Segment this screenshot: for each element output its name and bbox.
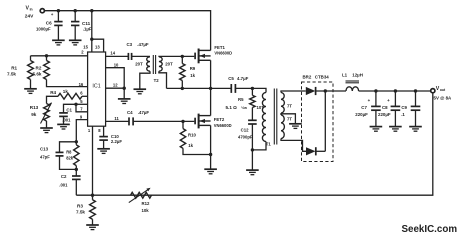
svg-text:1k: 1k [188,143,193,148]
wire [75,169,77,176]
svg-text:in: in [30,8,33,12]
svg-text:5V @ 8A: 5V @ 8A [434,96,453,101]
resistor R4 body [58,93,82,99]
svg-text:.47µF: .47µF [137,42,149,47]
resistor R1 body [28,61,34,80]
svg-text:½w: ½w [241,106,247,110]
ground C11 [69,40,82,45]
svg-text:VN6600D: VN6600D [214,123,232,128]
node switch node [209,87,212,90]
capacitor C12 4700pF [248,120,257,124]
svg-text:47pF: 47pF [40,154,50,159]
diode BR2 top [306,87,316,95]
wire [92,195,94,200]
wire T2 primary to ground [140,71,150,89]
wire [75,166,77,170]
wire pin 10 jog [106,68,125,89]
wire [251,108,253,121]
svg-text:T2: T2 [154,78,160,83]
svg-text:14: 14 [110,51,115,56]
wire T2 sec bottom to node [159,71,167,88]
svg-text:R10: R10 [188,132,196,137]
svg-text:+: + [368,98,371,103]
wire [210,155,212,170]
wire [251,124,253,150]
svg-text:T1: T1 [266,142,272,147]
T2 secondary winding [159,57,162,71]
node rail-C7 [374,89,377,92]
ground C10 [97,149,110,154]
wire pin 8 [103,126,105,136]
ground C1 [57,124,70,129]
node pin5/7-C1 [74,103,77,106]
wire pin 7 jumper [76,104,88,112]
node rail-C9 [414,89,417,92]
ground C8 [389,127,402,132]
svg-text:.1: .1 [401,112,405,117]
node R8-C13 top [75,140,78,143]
wire C1 top [64,104,77,113]
T1 sec lower [281,115,284,139]
svg-text:82k: 82k [66,156,74,161]
wire [181,56,183,63]
node C12-T1 bottom [251,148,254,151]
wire FET2 source [210,125,212,154]
wire feedback bottom rail [76,93,433,195]
svg-text:13: 13 [95,45,100,50]
wire BR2 link [324,91,326,151]
svg-text:R9: R9 [190,66,196,71]
wire R4 to R13 [47,96,59,103]
wire C13 bottom [60,156,77,170]
diode BR2 bottom [306,147,316,155]
capacitor C11 [71,11,79,41]
wire T1 primary bottom [252,142,266,150]
svg-text:R12: R12 [142,201,150,206]
svg-text:FET1: FET1 [214,45,225,50]
wire [46,121,48,128]
svg-text:R8: R8 [66,150,72,155]
svg-text:.001: .001 [59,182,68,187]
svg-text:9k: 9k [31,112,37,117]
wire C13 top [60,142,77,153]
wire C3 to T2 [132,55,150,57]
svg-text:CTB34: CTB34 [315,74,329,79]
svg-text:C12: C12 [241,127,249,132]
svg-text:12: 12 [113,83,118,88]
T2 primary winding [147,57,150,71]
ground C6 [52,40,65,45]
node rail-C8 [394,89,397,92]
resistor R10 body [180,129,185,149]
svg-text:16: 16 [79,82,84,87]
resistor R5 body [250,95,255,107]
wire [63,116,65,124]
wire [103,140,105,149]
R13 wiper arrow [41,103,52,124]
ground pin 12 [118,99,131,104]
wire pin 14 [106,55,129,57]
svg-text:C7: C7 [361,105,367,110]
svg-text:R4: R4 [50,90,56,95]
T1 primary winding [262,93,266,142]
capacitor C8 220µF [391,91,401,127]
svg-text:10k: 10k [142,208,150,213]
resistor R12 body [131,192,152,198]
svg-text:15: 15 [83,45,88,50]
capacitor C7 220µF [371,91,381,127]
svg-text:.47µF: .47µF [138,110,150,115]
svg-text:C4: C4 [127,110,133,115]
ground R1 [24,89,37,94]
wire FET1 source / FET2 drain [210,60,212,115]
svg-text:24V: 24V [25,14,34,20]
svg-text:10T: 10T [257,105,265,110]
T1 sec upper [281,93,284,114]
capacitor C5 4.7uF [231,84,235,93]
wire pin 1 feedback [92,126,94,195]
resistor R8 body [74,145,79,166]
ground T2 primary [134,89,147,94]
svg-text:2.2µF: 2.2µF [111,139,122,144]
wire pin 9 down [76,120,87,142]
svg-text:20T: 20T [165,61,173,66]
svg-text:R2: R2 [36,65,42,70]
svg-text:VN6600D: VN6600D [214,51,232,56]
svg-text:FET2: FET2 [214,117,225,122]
wire T1 sec bottom to BR2 [281,139,306,152]
bridge BR2 CTB34 dashed box [302,82,334,162]
svg-text:out: out [440,88,446,92]
svg-text:C6: C6 [46,20,52,25]
svg-text:C9: C9 [401,105,407,110]
ground T1 tap [289,124,302,129]
wire output rail [359,90,431,92]
svg-text:10: 10 [114,62,119,67]
svg-text:1000µF: 1000µF [36,26,51,31]
svg-text:4700pF: 4700pF [238,134,253,139]
wire [181,81,183,89]
node BR2 output [324,89,327,92]
wire BR2 out to L1 [316,90,346,92]
svg-text:7T: 7T [287,104,292,109]
wire [123,88,125,99]
ground R5/C12 [246,170,259,175]
wire [75,142,77,145]
transistor Q FET1 VN6600D [195,49,211,64]
node FET2 src-R10 [209,153,212,156]
wire C2 to bottom rail [75,179,77,195]
wire [251,88,253,95]
svg-text:+: + [387,98,390,103]
node R5 top [251,87,254,90]
ground FET2 source [204,169,217,174]
op-amp U IC1 regulator [88,52,106,126]
svg-text:7T: 7T [287,116,292,121]
svg-text:C5: C5 [228,76,234,81]
wire T1 sec top to BR2 [281,91,306,93]
wire [30,80,32,89]
wire pin 13 [92,39,104,52]
resistor R2 body [44,61,50,80]
svg-text:4.7µF: 4.7µF [237,76,249,81]
wire R10 to source [183,148,211,154]
wire pin 12 [106,87,125,89]
wire pin 11 [106,120,129,122]
wire T1 center tap [281,114,295,124]
resistor R3 body [90,200,96,219]
wire [316,150,326,152]
svg-text:C13: C13 [40,146,49,151]
wire T2 sec top to FET1 gate [159,55,194,57]
node rail-IC drop [90,9,93,12]
wire switch node [167,87,232,89]
svg-text:R5: R5 [238,97,244,102]
node feedback node [91,194,94,197]
svg-text:.1µF: .1µF [83,26,92,31]
svg-text:20T: 20T [135,61,143,66]
wire C5 to T1 primary [235,88,266,92]
node pin2-R2 [45,54,48,57]
wire pin 15 [91,39,93,52]
svg-text:7.5k: 7.5k [7,72,16,77]
wire tap link [280,113,282,115]
svg-text:R1: R1 [11,65,17,70]
svg-text:220µF: 220µF [355,112,368,117]
svg-text:C3: C3 [127,42,133,47]
svg-text:IC1: IC1 [92,84,100,90]
svg-text:7.5k: 7.5k [76,209,85,214]
L1 winding [346,87,359,91]
transformer T1 core [274,89,277,145]
svg-text:.001: .001 [62,118,71,123]
node pin15/13 split [90,38,93,41]
node Vin terminal [40,9,44,13]
resistor R9 body [180,64,185,81]
ground R3 [86,225,99,230]
wire [46,56,48,61]
wire rail to pin15/13 [91,11,93,40]
svg-text:C8: C8 [382,105,388,110]
svg-text:12µH: 12µH [352,72,363,77]
wire pin 2 to R1/R2 [31,55,88,57]
wire C4 to FET2 gate [133,120,194,122]
svg-text:5.1 Ω: 5.1 Ω [226,105,238,110]
wire pin 5 [76,103,88,105]
transformer T2 core [153,55,155,74]
svg-text:R3: R3 [77,204,83,209]
wire R2 to pin 16 [47,80,88,87]
node rail-C6 [57,9,60,12]
wire Vin top rail [45,11,211,51]
node FET2 gate node [181,120,184,123]
svg-text:220µF: 220µF [378,112,391,117]
svg-text:1k: 1k [63,89,69,94]
wire [251,150,253,170]
node Vout terminal [431,89,435,93]
node R9 bottom [181,87,184,90]
wire [92,219,94,225]
wire [30,56,32,61]
svg-text:C1: C1 [66,108,72,113]
node pin10/12 [123,87,126,90]
transistor Q FET2 VN6600D [195,114,211,129]
svg-text:L1: L1 [342,72,348,77]
ground C9 [409,127,422,132]
svg-text:1k: 1k [190,73,195,78]
resistor R13 body [44,104,50,122]
node gate1 node [181,55,184,58]
capacitor C6 [54,11,62,41]
svg-text:BR2: BR2 [303,74,312,79]
wire pin 6 [82,95,88,97]
capacitor C9 .1 [411,91,421,127]
svg-text:5.6k: 5.6k [33,72,42,77]
svg-text:SeekIC.com: SeekIC.com [402,224,458,235]
ground R13 [40,128,53,133]
svg-text:R13: R13 [30,105,39,110]
svg-text:11: 11 [114,116,119,121]
node R8-C13 bottom [75,168,78,171]
svg-text:C2: C2 [61,174,67,179]
node rail-C11 [74,9,77,12]
wire [182,121,184,128]
ground C7 [370,127,383,132]
